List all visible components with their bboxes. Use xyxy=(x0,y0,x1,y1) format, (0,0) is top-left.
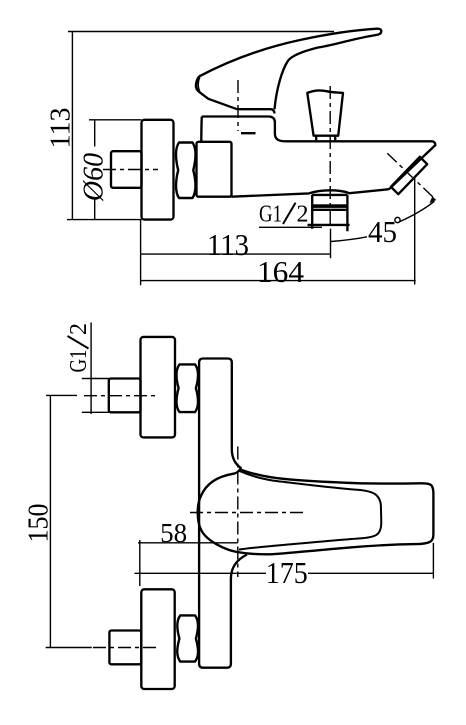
svg-text:45: 45 xyxy=(368,214,397,249)
svg-text:G1: G1 xyxy=(259,202,282,228)
svg-text:113: 113 xyxy=(45,108,77,149)
svg-text:164: 164 xyxy=(257,254,305,289)
svg-text:175: 175 xyxy=(266,555,308,590)
svg-text:Ø60: Ø60 xyxy=(79,153,110,202)
svg-text:G1: G1 xyxy=(66,350,92,373)
svg-text:150: 150 xyxy=(23,504,55,543)
svg-text:58: 58 xyxy=(160,518,187,548)
svg-text:2: 2 xyxy=(66,323,92,335)
svg-text:113: 113 xyxy=(207,227,249,262)
svg-text:2: 2 xyxy=(297,202,309,228)
